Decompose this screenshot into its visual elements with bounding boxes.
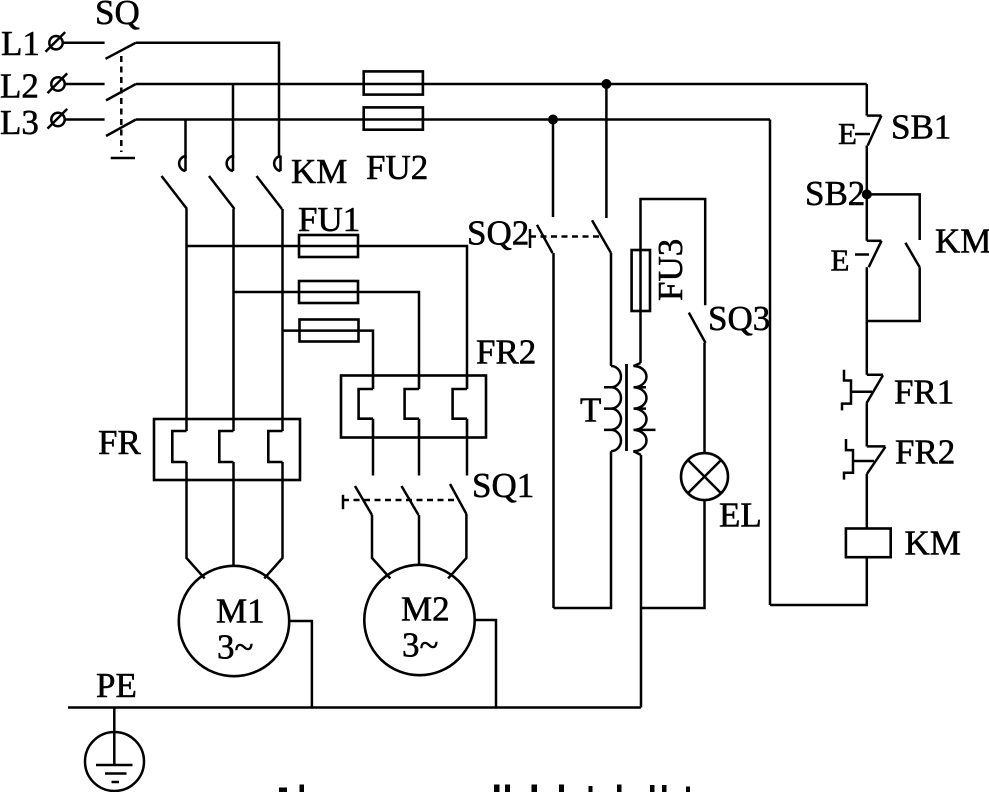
fuse FU1-1 [299, 235, 358, 257]
thermal element FR2 phase C [453, 376, 467, 438]
wire SB1 to SB2 [866, 146, 869, 195]
transformer T primary winding [604, 366, 621, 451]
switch SQ3 blade [689, 313, 706, 343]
fuse FU1-2 [299, 281, 358, 303]
wire M2 lead right [448, 514, 466, 578]
wire PE bus [68, 706, 641, 709]
switch SQ1 linkage [343, 495, 456, 509]
switch SQ pole 2 blade [106, 84, 136, 100]
svg-text:L1: L1 [1, 24, 40, 63]
node L1 terminal [46, 32, 66, 52]
switch SQ2 linkage [530, 229, 600, 248]
contact FR1 [842, 370, 883, 411]
svg-text:3~: 3~ [217, 628, 253, 667]
thermal element FR2 phase A [359, 376, 373, 438]
fuse FU3 [632, 250, 650, 311]
wire SQ1 feed 2 [418, 438, 421, 476]
wire L1 lead-in [63, 41, 105, 44]
svg-text:FR: FR [98, 423, 141, 462]
wire L2 bus [136, 83, 867, 86]
wire FU3 top [641, 199, 706, 305]
wire FU1 branch 2 [234, 291, 300, 294]
thermal element FR2 phase B [405, 376, 419, 438]
svg-text:SQ1: SQ1 [472, 466, 534, 505]
wire SQ2 pole right feed [605, 84, 608, 218]
thermal element FR phase C [268, 431, 282, 462]
thermal element FR phase A [172, 431, 186, 462]
wire secondary top to FU3 [639, 311, 642, 363]
svg-text:FU1: FU1 [298, 200, 360, 239]
switch SQ pole 3 blade [106, 120, 136, 137]
switch SQ2 blade left [537, 225, 553, 253]
switch SQ linkage [111, 56, 135, 158]
svg-text:E: E [831, 243, 850, 278]
transformer T secondary winding [634, 363, 656, 455]
svg-text:KM: KM [935, 222, 989, 261]
svg-text:FR2: FR2 [476, 333, 536, 372]
svg-text:L3: L3 [0, 103, 39, 142]
wire SQ1 feed 1 [372, 438, 375, 476]
fuse FU2-2 [364, 107, 423, 129]
svg-text:FR1: FR1 [894, 373, 954, 412]
wire FU1 branch 1 [187, 245, 300, 248]
wire FU1-2 out [358, 292, 419, 376]
svg-text:E: E [838, 116, 857, 151]
switch SQ1 blade 2 [402, 486, 419, 515]
switch SQ pole 1 blade [106, 43, 136, 59]
wire SQ3 to lamp [703, 343, 706, 453]
svg-text:PE: PE [96, 666, 137, 705]
wire SQ1 feed 3 [466, 438, 469, 476]
wire primary return [554, 451, 612, 608]
wire M1 lead left [187, 462, 205, 578]
wire L3 bus [136, 118, 770, 121]
wire transformer primary feed [610, 253, 613, 366]
node L3 tap junction [548, 115, 558, 125]
wire KM contact 2 feed [232, 84, 235, 158]
wire SQ2 pole left feed [552, 120, 555, 218]
svg-text:SQ: SQ [95, 0, 140, 32]
ground earth symbol [85, 708, 144, 792]
wire lamp return [641, 500, 705, 608]
svg-text:M1: M1 [216, 592, 265, 631]
contactor KM main contact 1 [162, 156, 188, 210]
wire SQ2 left pole down [552, 253, 555, 608]
motor M1 [179, 566, 289, 676]
wire M2 lead mid [418, 515, 421, 565]
caption fragment marks [279, 785, 690, 792]
svg-text:FU2: FU2 [366, 148, 428, 187]
contact FR2 [844, 439, 885, 480]
wire KM contact 1 feed [184, 120, 187, 159]
contactor KM main contact 2 [209, 156, 235, 210]
wire phase A down to FR [185, 209, 188, 431]
svg-text:KM: KM [291, 152, 347, 191]
wire KM aux branch bottom [867, 267, 920, 321]
svg-text:SB2: SB2 [805, 174, 865, 213]
wire FU1-3 out [359, 331, 374, 376]
svg-text:3~: 3~ [402, 626, 438, 665]
wire KM aux branch top [867, 194, 920, 240]
wire FU1-1 out [358, 246, 467, 376]
svg-text:M2: M2 [401, 590, 450, 629]
svg-text:SB1: SB1 [891, 108, 951, 147]
wire FU1 branch 3 [283, 329, 300, 332]
wire phase B down to FR [232, 209, 235, 431]
svg-text:KM: KM [905, 524, 961, 563]
wire control rail from L2 [866, 84, 869, 116]
wire phase C down to FR [281, 209, 284, 431]
motor M2 [364, 565, 474, 675]
thermal relay FR box [154, 419, 300, 480]
wire M1 lead right [264, 462, 282, 578]
wire FR1 to FR2 [866, 403, 869, 446]
fuse FU2-1 [364, 71, 423, 94]
switch SQ1 blade 3 [450, 484, 466, 514]
switch SQ1 blade 1 [355, 486, 372, 515]
wire L2 lead-in [65, 83, 105, 86]
wire L1 to corner [136, 43, 279, 158]
wire M1 lead mid [232, 462, 235, 566]
transformer T core [625, 364, 628, 451]
node L3 terminal [48, 109, 68, 129]
lamp EL [681, 453, 728, 500]
fuse FU1-3 [300, 320, 359, 342]
pushbutton SB1 [855, 116, 881, 146]
wire M2 lead left [372, 515, 390, 578]
svg-text:EL: EL [719, 496, 762, 535]
svg-text:T: T [580, 391, 601, 430]
wire L3 lead-in [65, 118, 105, 121]
node SB2 junction [862, 189, 872, 199]
wire coil return [770, 557, 867, 605]
node L2 terminal [48, 73, 68, 93]
svg-text:L2: L2 [0, 67, 39, 106]
wire SB2 to FR1 [866, 267, 869, 375]
wire M1 frame to PE [289, 621, 312, 708]
pushbutton SB2 [855, 194, 882, 267]
wire return to L3 [769, 120, 772, 606]
svg-text:FR2: FR2 [895, 433, 955, 472]
contact KM auxiliary [905, 243, 919, 267]
svg-text:SQ3: SQ3 [708, 299, 770, 338]
svg-text:FU3: FU3 [651, 239, 690, 301]
thermal element FR phase B [219, 431, 233, 462]
contactor KM main contact 3 [257, 156, 283, 210]
switch SQ2 blade right [592, 220, 611, 253]
svg-text:SQ2: SQ2 [467, 214, 529, 253]
coil KM [846, 529, 891, 558]
wire M2 frame to PE [475, 620, 496, 708]
node L2 tap junction [601, 79, 611, 89]
wire FR2 to coil [866, 474, 869, 529]
thermal relay FR2 box [341, 376, 486, 438]
wire secondary to PE [640, 455, 643, 708]
